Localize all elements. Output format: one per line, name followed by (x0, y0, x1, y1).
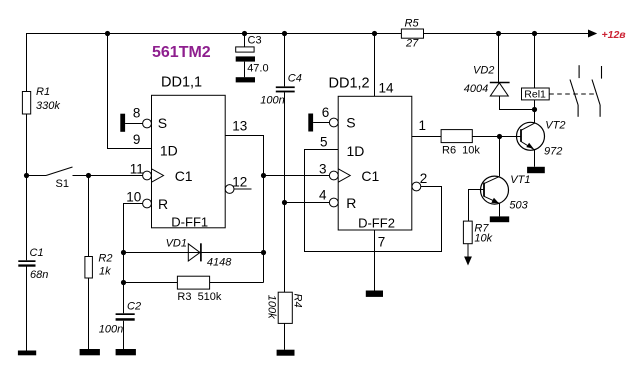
svg-text:R3 510k: R3 510k (177, 291, 222, 303)
transistor VT2 (517, 120, 566, 158)
wire base node to VT1 collector (499, 137, 501, 177)
wire pin 7 to ground (374, 230, 376, 291)
svg-text:12: 12 (232, 175, 247, 190)
resistor R3 (177, 276, 209, 289)
svg-text:8: 8 (133, 106, 141, 121)
wire R3 row (124, 282, 264, 284)
node VD1 left (121, 250, 126, 255)
svg-text:R4: R4 (291, 294, 303, 308)
transistor VT1 (481, 174, 531, 212)
pin 2 bubble (412, 182, 421, 191)
pin 3 clock bubble (329, 171, 338, 180)
wire pin 4 row (285, 202, 330, 204)
svg-text:1D: 1D (160, 143, 178, 159)
svg-text:47.0: 47.0 (247, 63, 268, 75)
diode VD2 (490, 82, 510, 84)
ground VT1 (490, 216, 509, 222)
wire pin 5 1D feedback loop (305, 150, 442, 252)
svg-text:R6 10k: R6 10k (442, 145, 480, 157)
node rail junction 1 (105, 31, 110, 36)
wire C4 upper (284, 34, 286, 87)
wire VD2 upper (498, 34, 500, 83)
wire left rail upper (to C1) (26, 34, 28, 261)
svg-text:5: 5 (320, 135, 328, 150)
node S1 left (24, 173, 29, 178)
relay contact 1 (570, 65, 579, 117)
resistor R1 (22, 92, 30, 115)
wire pin 13 output and right column (225, 136, 263, 283)
wire pin 6 stub (313, 122, 329, 124)
svg-text:R5: R5 (405, 18, 420, 30)
svg-text:C4: C4 (288, 73, 302, 85)
wire VT1 base left / R7 upper (469, 190, 485, 222)
node S1 right (86, 173, 91, 178)
pin 6 marker bar (308, 114, 313, 132)
svg-text:11: 11 (130, 161, 144, 176)
svg-text:C3: C3 (248, 35, 262, 47)
ground VT2 (527, 167, 545, 173)
clock triangle DD1,1 (152, 169, 164, 182)
wire pin 12 stub (234, 188, 252, 190)
svg-text:10: 10 (126, 189, 141, 204)
svg-text:R: R (158, 196, 168, 212)
pin 6 bubble (329, 118, 338, 127)
node rail junction relay (532, 31, 537, 36)
wire R2 upper (88, 176, 90, 257)
svg-text:9: 9 (133, 132, 141, 147)
svg-text:C1: C1 (175, 168, 193, 184)
svg-text:R: R (346, 195, 356, 211)
svg-text:VD1: VD1 (166, 238, 187, 250)
svg-text:1: 1 (419, 118, 427, 133)
node R3 left (121, 280, 126, 285)
svg-text:100k: 100k (265, 295, 277, 319)
node VD2/relay/collector junction (532, 107, 537, 112)
pin 8 bubble (143, 119, 152, 128)
resistor R7 (463, 221, 472, 244)
svg-text:68n: 68n (30, 269, 48, 281)
svg-text:7: 7 (378, 235, 386, 250)
svg-text:6: 6 (322, 105, 330, 120)
svg-text:1k: 1k (99, 266, 111, 278)
svg-text:S1: S1 (56, 178, 69, 190)
node pin13/clock junction (261, 173, 266, 178)
pin 10 bubble (143, 199, 152, 208)
svg-text:R2: R2 (98, 253, 112, 265)
svg-text:4148: 4148 (207, 257, 232, 269)
wire top +12V rail (27, 34, 589, 36)
svg-text:D-FF1: D-FF1 (171, 214, 208, 229)
diode VD1 (188, 244, 200, 261)
wire junction riser to pin 9 (108, 34, 152, 149)
ground C2 (116, 349, 136, 355)
resistor R2 (85, 257, 93, 279)
svg-text:+12в: +12в (602, 29, 627, 41)
ground R2 (80, 349, 100, 355)
relay contact 2 (592, 66, 602, 117)
svg-text:C1: C1 (361, 168, 379, 184)
svg-text:DD1,1: DD1,1 (161, 75, 202, 91)
wire dashed relay link (549, 93, 597, 95)
wire pin 8 stub (125, 123, 143, 125)
wire VD2 anode to relay node (500, 96, 535, 110)
svg-text:13: 13 (232, 119, 247, 134)
wire R2 lower to ground (88, 278, 90, 349)
svg-text:330k: 330k (36, 100, 60, 112)
svg-text:VT1: VT1 (510, 174, 530, 186)
capacitor C3 polarized (236, 47, 254, 52)
svg-text:503: 503 (509, 200, 528, 212)
svg-text:1D: 1D (347, 143, 365, 159)
svg-text:VD2: VD2 (473, 65, 494, 77)
resistor R5 (401, 29, 423, 38)
wire C4 lower / R4 column (284, 92, 286, 292)
svg-text:DD1,2: DD1,2 (329, 76, 370, 92)
capacitor C4 (276, 86, 295, 88)
op-amp DD1,1 flip-flop box (152, 95, 226, 228)
svg-text:C2: C2 (127, 301, 141, 313)
resistor R6 (441, 130, 472, 143)
switch S1 (46, 167, 73, 176)
wire VD1 row (124, 252, 264, 254)
resistor R4 (278, 292, 292, 323)
relay Rel1 (522, 88, 550, 100)
wire pin 14 drop (374, 34, 376, 97)
svg-text:3: 3 (319, 161, 327, 176)
svg-text:4004: 4004 (464, 83, 488, 95)
wire pin 1 to R6 (412, 136, 441, 138)
svg-text:27: 27 (405, 38, 419, 50)
ground R4 (277, 350, 295, 356)
capacitor C2 (116, 313, 135, 315)
ground C1 (18, 351, 36, 356)
svg-text:561ТМ2: 561ТМ2 (152, 44, 211, 61)
wire VT1 emitter to ground (499, 203, 501, 216)
svg-text:100n: 100n (260, 95, 284, 107)
wire VT2 collector (534, 110, 536, 123)
node VT2 base junction (497, 134, 502, 139)
svg-text:4: 4 (319, 188, 327, 203)
wire S1 left (27, 175, 47, 177)
arrow R7 down (464, 257, 472, 266)
wire pin 10 stub and feedback column (124, 204, 143, 314)
svg-text:S: S (346, 115, 355, 131)
op-amp DD1,2 flip-flop box (338, 96, 412, 230)
svg-text:2: 2 (420, 171, 428, 186)
wire R7 lower to arrow (467, 244, 469, 258)
wire C3 stub (244, 34, 246, 48)
node VD1 right (261, 250, 266, 255)
ground C3 (236, 77, 255, 82)
node rail junction pin14 (372, 31, 377, 36)
svg-text:100n: 100n (99, 324, 123, 336)
wire left rail C1 to ground (26, 266, 28, 351)
node rail junction C4 (282, 31, 287, 36)
arrow +12V rail head (588, 30, 597, 38)
pin 12 bubble (225, 185, 234, 194)
wire clock row to pin 3 (264, 175, 330, 177)
wire relay coil upper (534, 34, 536, 89)
wire relay coil lower (534, 100, 536, 110)
node rail junction VD2 (496, 31, 501, 36)
node rail junction C3 (242, 31, 247, 36)
svg-text:14: 14 (379, 81, 395, 96)
wire VT2 emitter to ground (534, 150, 536, 167)
pin 4 bubble (329, 198, 338, 207)
svg-text:972: 972 (544, 146, 562, 158)
svg-text:C1: C1 (30, 247, 44, 259)
clock triangle DD1,2 (338, 169, 350, 182)
wire S1 right to pin 11 (73, 175, 143, 177)
svg-text:Rel1: Rel1 (524, 89, 546, 101)
svg-text:10k: 10k (474, 232, 492, 244)
node pin 4 junction (282, 200, 287, 205)
pin 11 clock bubble (143, 171, 152, 180)
svg-text:VT2: VT2 (545, 120, 565, 132)
wire C2 to ground (123, 321, 125, 349)
pin 8 marker bar (120, 114, 125, 132)
wire C3 lower stub (244, 62, 246, 78)
svg-text:S: S (158, 115, 167, 131)
svg-text:D-FF2: D-FF2 (358, 215, 395, 230)
capacitor C1 (18, 260, 35, 262)
ground pin 7 (366, 291, 383, 297)
svg-text:R1: R1 (36, 86, 50, 98)
wire R4 to ground (284, 323, 286, 349)
wire R6 to VT2 base (472, 136, 521, 138)
